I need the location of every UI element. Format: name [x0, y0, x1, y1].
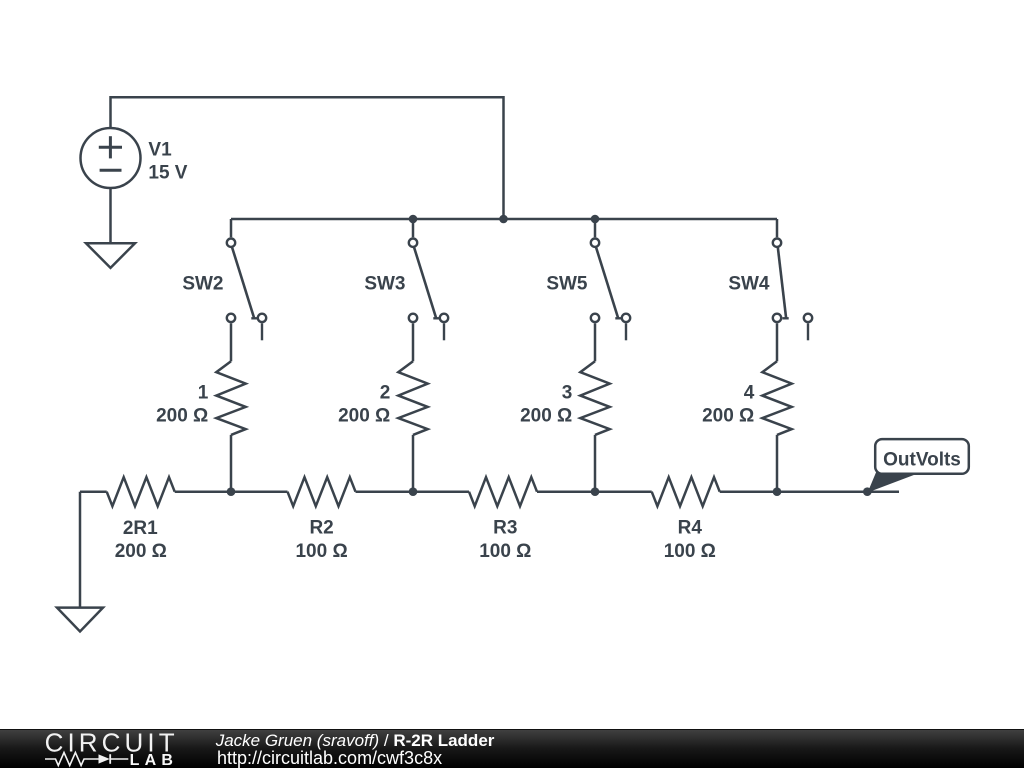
wire: V1 top to bus (L-shape via x=503.5) [111, 97, 504, 219]
switch SW2 [227, 239, 266, 341]
wire: 2R1 to R2 [175, 490, 288, 493]
junction node rail / resistor 1 [227, 487, 236, 496]
svg-text:100 Ω: 100 Ω [664, 541, 716, 562]
wire: resistor 4 bottom to rail [776, 435, 779, 492]
resistor R2 (100 ohm, horizontal) [288, 477, 356, 506]
svg-text:200 Ω: 200 Ω [520, 406, 572, 427]
resistor R3 (100 ohm, horizontal) [469, 477, 537, 506]
ground (bottom left) [57, 608, 103, 632]
CircuitLab logo [45, 727, 179, 768]
svg-text:http://circuitlab.com/cwf3c8x: http://circuitlab.com/cwf3c8x [217, 748, 442, 768]
svg-text:200 Ω: 200 Ω [338, 406, 390, 427]
junction node on bus (V1 feed) [499, 215, 508, 224]
voltage source V1 [81, 128, 141, 188]
svg-text:LAB: LAB [130, 752, 178, 768]
wire: SW3 left throw down to resistor 2 [412, 323, 415, 361]
svg-text:1: 1 [198, 382, 209, 403]
svg-text:15 V: 15 V [148, 163, 187, 184]
junction node rail / resistor 2 [409, 487, 418, 496]
resistor 2 (200 ohm, vertical) [398, 361, 427, 435]
svg-text:200 Ω: 200 Ω [115, 541, 167, 562]
svg-text:100 Ω: 100 Ω [295, 541, 347, 562]
wire: SW4 left throw down to resistor 4 [776, 323, 779, 361]
wire: rail left end to 2R1 [80, 490, 107, 493]
resistor 4 (200 ohm, vertical) [762, 361, 791, 435]
svg-text:V1: V1 [148, 139, 172, 160]
junction node OutVolts tap [863, 487, 872, 496]
svg-text:200 Ω: 200 Ω [702, 406, 754, 427]
svg-text:R3: R3 [493, 518, 517, 539]
ground (under V1) [86, 243, 135, 268]
wire: V1 bottom to ground [109, 188, 112, 243]
wire: resistor 2 bottom to rail [412, 435, 415, 492]
junction node on bus (SW5) [591, 215, 600, 224]
resistor 2R1 (200 ohm, horizontal) [107, 477, 175, 506]
wire: resistor 1 bottom to rail [230, 435, 233, 492]
resistor R4 (100 ohm, horizontal) [652, 477, 720, 506]
svg-text:SW2: SW2 [182, 273, 223, 294]
wire: R3 to R4 [537, 490, 652, 493]
svg-text:4: 4 [744, 382, 755, 403]
wire: R4 to OutVolts stub [720, 490, 899, 493]
wire: top bus [231, 218, 777, 221]
wire: rail left drop to ground [79, 492, 82, 608]
switch SW5 [591, 239, 630, 341]
switch SW4 [773, 239, 812, 341]
wire: bus drop to SW4 top terminal [776, 219, 779, 237]
switch SW3 [409, 239, 448, 341]
svg-text:SW3: SW3 [364, 273, 405, 294]
wire: SW2 left throw down to resistor 1 [230, 323, 233, 361]
wire: bus drop to SW5 top terminal [594, 219, 597, 237]
svg-text:SW4: SW4 [728, 273, 770, 294]
junction node rail / resistor 3 [591, 487, 600, 496]
svg-text:R2: R2 [309, 518, 333, 539]
wire: bus drop to SW3 top terminal [412, 219, 415, 237]
svg-text:3: 3 [562, 382, 573, 403]
junction node on bus (SW3) [409, 215, 418, 224]
footer bar [0, 729, 1024, 768]
resistor 1 (200 ohm, vertical) [216, 361, 245, 435]
junction node rail / resistor 4 [773, 487, 782, 496]
svg-text:R4: R4 [678, 518, 703, 539]
svg-text:200 Ω: 200 Ω [156, 406, 208, 427]
wire: resistor 3 bottom to rail [594, 435, 597, 492]
svg-text:OutVolts: OutVolts [883, 450, 961, 471]
wire: SW5 left throw down to resistor 3 [594, 323, 597, 361]
svg-text:2: 2 [380, 382, 391, 403]
svg-text:2R1: 2R1 [123, 518, 158, 539]
wire: R2 to R3 [356, 490, 470, 493]
svg-text:SW5: SW5 [546, 273, 588, 294]
node OutVolts flag [868, 439, 969, 492]
wire: bus drop to SW2 top terminal [230, 219, 233, 237]
svg-text:100 Ω: 100 Ω [479, 541, 531, 562]
resistor 3 (200 ohm, vertical) [580, 361, 609, 435]
